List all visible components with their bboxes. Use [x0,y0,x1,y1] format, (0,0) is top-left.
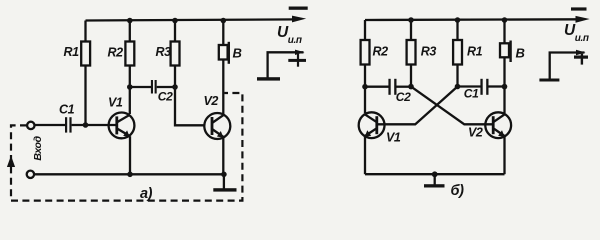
wire: top supply rail (a) [86,19,299,20]
wire: bottom rail (a) [34,173,225,175]
svg-text:а): а) [140,186,153,202]
battery plus terminal symbol (a): wire [268,52,304,77]
wire: C2 to R3 node (b) [397,86,412,88]
battery plus terminal symbol (b): wire [550,53,585,79]
battery plus vertical bar (a) [297,54,299,67]
resistor R2 (b) bottom lead / V1 collector column [364,65,366,114]
battery plus vertical bar (b) [581,54,583,65]
transistor V2 (a) base bar [211,117,214,135]
transistor V2 (a) emitter stroke with arrow [212,129,223,137]
capacitor C2 (a) right plate [155,80,157,94]
junction: R1 on top rail (b) [455,17,461,23]
transistor V2 (a) circle [204,113,230,139]
dashed box arrow up (a) [7,156,15,167]
transistor V1 (b) emitter stroke with arrow [365,128,377,136]
junction: R2 on top rail (a) [127,18,133,24]
transistor V2 (b) base bar [492,116,495,134]
junction: B on top rail (b) [502,17,508,23]
power arrow Uип (b) arrowhead [576,16,590,23]
transistor V1 (b) collector stroke [365,114,377,122]
resistor R2 (b) body [361,40,370,65]
junction: ground node on bottom rail (b) [432,171,438,177]
relay winding B (b) body [500,43,509,57]
junction: C2 / R3 node (b) [408,84,414,90]
transistor V1 (a) circle [109,113,135,139]
capacitor C2 (a) left plate [151,80,153,94]
resistor R3 (b): top lead [410,20,412,40]
capacitor C1 (b) right plate [486,79,488,95]
relay winding B (b): top lead [503,20,505,43]
transistor V2 (a) emitter lead to bottom rail [222,137,224,175]
svg-text:R1: R1 [467,45,483,59]
ground bar for supply (b) [539,79,559,82]
junction: C1 / R1 node (b) [455,84,461,90]
transistor V1 (a) base bar [115,116,118,134]
junction: R3 on top rail (a) [172,18,178,24]
wire: C2 to R3 column (a) [157,86,175,88]
power bar above arrow (b) [571,7,587,10]
wire: cross coupling R3 node to V2 base (b) [411,87,493,125]
junction: C1 right node on V2 collector column (b) [502,84,508,90]
junction: R1 bottom with base wire (a) [83,122,89,128]
capacitor C1 (b) left plate [480,79,482,95]
junction: C2 left node on V1 collector column (a) [127,84,133,90]
junction: V1 emitter on bottom rail (a) [127,172,133,178]
wire: V1 collector to C2 (b) [365,86,389,88]
input terminal bottom (a) [27,171,34,178]
input terminal top (a) [27,122,34,129]
resistor R2 (b): top lead [364,20,366,40]
power arrow Uип (a) arrowhead [292,16,306,23]
transistor V1 (a) emitter lead to bottom rail [129,136,131,174]
resistor R3 (a) body [171,42,180,66]
transistor V1 (b) circle (mirrored) [359,112,385,138]
svg-text:V1: V1 [108,96,123,110]
resistor R3 (b) body [407,40,416,65]
resistor R2 (a) body [125,42,134,66]
svg-text:R3: R3 [421,45,437,59]
relay winding B (a) body [219,45,228,60]
resistor R1 (b) body [453,40,462,65]
svg-text:В: В [233,46,242,61]
ground bar for supply (a) [257,77,280,80]
resistor R2 (a) bottom lead / V1 collector column [129,66,131,115]
transistor V2 (b) emitter lead to bottom rail [503,136,505,174]
svg-text:C2: C2 [396,90,411,104]
ground (b): bar [424,184,445,187]
junction: C2 left node on V1 collector column (b) [362,84,368,90]
resistor R3 (a): top lead [174,21,176,42]
resistor R1 (b) bottom lead [456,65,458,87]
battery plus cross bar (a) [288,59,306,62]
wire: C1 to V1 base (a) [72,124,117,126]
svg-text:В: В [516,46,525,61]
transistor V1 (a) collector stroke [117,115,130,123]
transistor V2 (b) emitter stroke with arrow [493,128,504,136]
relay winding B (b) bottom lead / V2 collector column [503,57,505,113]
transistor V1 (a) emitter stroke with arrow [117,128,130,136]
relay winding B (a) bottom lead / V2 collector column [222,60,224,115]
resistor R3 (b) bottom lead [410,65,412,87]
wire: V1 collector to C2 (a) [130,86,151,88]
svg-text:V2: V2 [468,126,483,140]
capacitor C2 (b) right plate [394,79,396,95]
svg-text:R1: R1 [64,45,80,59]
junction: C2 right node on R3 column (a) [172,84,178,90]
svg-text:R2: R2 [108,46,124,60]
junction: V2 emitter / ground node (a) [221,172,227,178]
ground (b): stub [434,174,436,184]
relay winding B (a): top lead [222,21,224,46]
power bar above arrow (a) [289,7,308,10]
battery plus arrow (a) [295,50,305,55]
ground (a): stub [223,174,225,188]
wire: C1 to V2 collector column (b) [489,85,505,87]
transistor V2 (b) collector stroke [493,114,504,122]
relay winding B (a) side bar [228,42,230,64]
capacitor C1 (a) right plate [69,117,71,132]
svg-text:R3: R3 [156,45,172,59]
junction: B on top rail (a) [221,18,227,24]
svg-text:V1: V1 [386,131,401,145]
capacitor C2 (b) left plate [388,79,390,95]
junction: R3 on top rail (b) [408,17,414,23]
battery plus cross bar (b) [574,56,588,59]
battery plus arrow (b) [576,50,586,55]
wire: bottom rail (b) [365,173,505,175]
svg-text:C1: C1 [59,103,75,117]
svg-text:б): б) [451,183,465,199]
relay winding B (b) side bar [509,41,511,63]
capacitor C1 (a) left plate [65,117,67,132]
transistor V2 (b) circle [485,112,511,138]
wire: top supply rail (b) [365,18,582,21]
resistor R2 (a): top lead [129,21,131,42]
transistor V1 (b) base bar [375,116,378,134]
wire: input terminal to C1 (a) [35,124,66,126]
svg-text:R2: R2 [373,45,389,59]
resistor R1 (a): top lead [84,21,86,42]
resistor R1 (a) bottom lead [84,66,86,126]
dashed enclosure box (a) [11,93,242,201]
wire: C1 node to C1 (b) [458,85,482,87]
transistor V2 (a) collector stroke [212,115,223,123]
resistor R3 (a) bottom lead to V2 base node [175,66,205,126]
wire: cross coupling R1 node to V1 base (b) [377,87,458,125]
ground (a): bar [213,188,236,191]
resistor R1 (a) body [81,42,90,66]
transistor V1 (b) emitter lead to bottom rail [364,136,366,174]
svg-text:V2: V2 [204,94,219,108]
resistor R1 (b): top lead [456,20,458,40]
svg-text:C2: C2 [158,90,173,104]
svg-text:C1: C1 [464,86,479,100]
svg-text:Вход: Вход [32,135,44,160]
